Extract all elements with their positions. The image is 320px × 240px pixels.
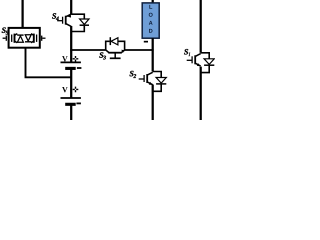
wire: between V1 and V2 (70, 69, 72, 98)
S5 left gate lead (3, 37, 6, 39)
S4 gate lead (57, 20, 62, 22)
V1 label + (73, 56, 79, 62)
gate bar (110, 57, 121, 59)
wire: right rail top to S1 (200, 0, 202, 53)
transistor S3 (horizontal, diode loop above, pointing left) (106, 37, 125, 58)
battery V2 (61, 87, 81, 105)
S5 right gate lead (42, 37, 45, 39)
S4 diode loop (wide) (71, 14, 84, 31)
S4 body bar (65, 16, 67, 25)
S5 left diagonals (15, 34, 18, 43)
S4 diode bar (80, 24, 89, 26)
wire: S4 emitter down to battery V1 (70, 26, 72, 62)
V2 long plate (61, 97, 81, 99)
V1 short plate (65, 67, 76, 70)
label minus at load bottom (144, 41, 148, 43)
S5 left inner body bar (14, 34, 16, 43)
transistor S1 (187, 53, 215, 73)
V2 label V (62, 87, 68, 92)
V2 label minus (76, 103, 81, 105)
V2 label + (73, 87, 79, 93)
emitter diagonal (121, 50, 124, 53)
load rect (142, 3, 159, 38)
body bar (horizontal) (108, 52, 122, 54)
load letters (149, 5, 152, 9)
V2 short plate (65, 103, 76, 106)
V1 label minus (77, 67, 82, 69)
gate stub (114, 53, 116, 58)
S5 right gate bar (41, 36, 43, 41)
S4 diode triangle (hollow) (80, 19, 89, 24)
label S1 (184, 49, 188, 54)
label S4 (52, 13, 56, 18)
load block (142, 3, 159, 38)
transistor S2 (139, 72, 167, 92)
S5 inner diode up (triangle apex up, bar above) (17, 36, 23, 42)
transistor S4 (57, 14, 89, 32)
S5 right diagonals (31, 34, 34, 43)
wire: S3 branch from battery rail junction to S3 (70, 49, 105, 51)
S4 emitter diagonal (66, 24, 72, 27)
wire: left rail top (node A down to S5 box) (21, 0, 23, 28)
wire: S1 emitter to bottom edge (200, 67, 202, 120)
wire: S2 emitter to bottom edge (152, 85, 154, 121)
wire: S3 to load bottom rail (125, 49, 154, 51)
label S3 (99, 52, 103, 57)
S5 right inner body bar (33, 34, 35, 43)
battery V1 (61, 56, 82, 69)
diode triangle (hollow, apex left) (111, 38, 118, 45)
label S5 (2, 28, 6, 33)
S5 inner diode down (triangle apex down, bar below) (25, 35, 31, 41)
emitter arrow (121, 50, 124, 53)
diode loop (106, 41, 125, 50)
bidirectional switch S5 (3, 28, 46, 48)
S5 left gate bar (5, 36, 7, 41)
S5 box (9, 28, 40, 48)
collector diagonal (106, 50, 109, 53)
wire: S4 collector rail from top edge (70, 0, 72, 14)
diode bar (109, 37, 111, 45)
label S2 (130, 71, 134, 76)
wire: V2 to bottom edge (70, 105, 72, 120)
S4 gate bar (62, 17, 64, 24)
wire: load bottom to S2 (152, 38, 154, 71)
V1 long plate (61, 61, 81, 63)
V1 label V (62, 56, 68, 61)
S5 left inner gate bar (11, 35, 13, 42)
wire: S5 bottom tap to battery midpoint (26, 48, 72, 78)
wire: load top stub (152, 0, 154, 3)
S4 upper arrow (emitter up) (67, 14, 71, 18)
S4 collector diagonal (66, 14, 72, 17)
S5 right inner gate bar (36, 35, 38, 42)
